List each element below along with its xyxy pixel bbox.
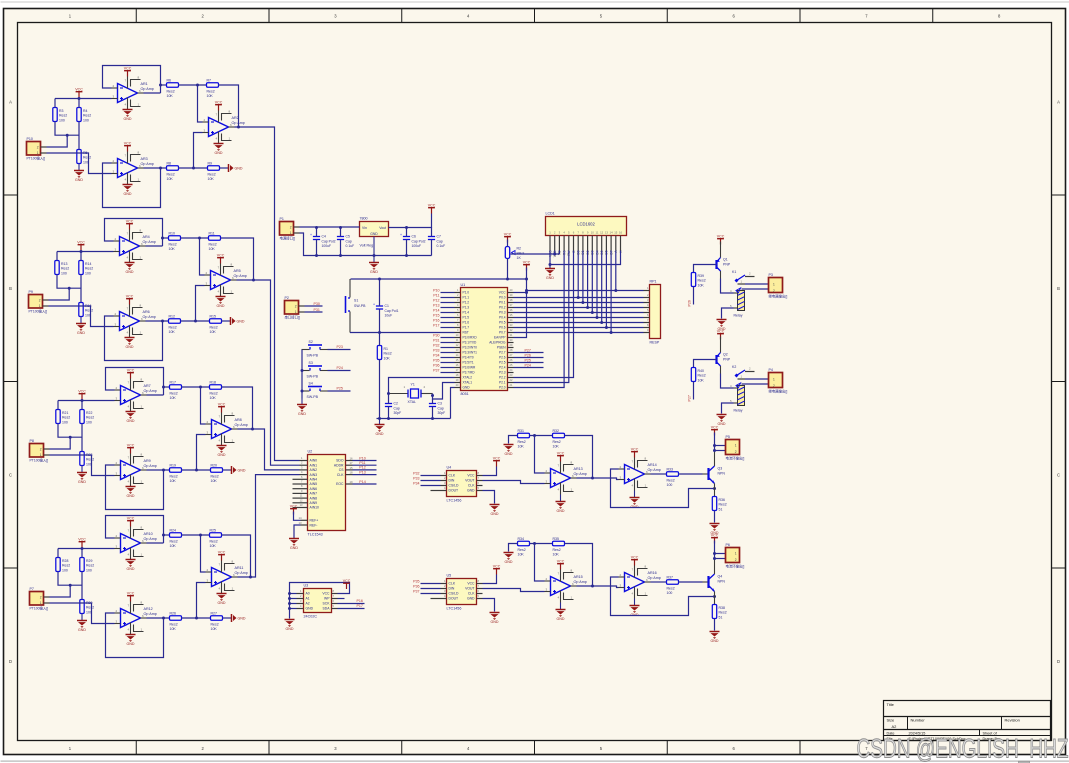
- power VCC: [77, 240, 85, 250]
- svg-text:电流环输出[]: 电流环输出[]: [726, 456, 745, 461]
- wire: [179, 84, 207, 86]
- svg-text:GND: GND: [237, 319, 245, 323]
- svg-text:GND: GND: [218, 453, 226, 457]
- svg-text:1: 1: [290, 231, 292, 235]
- svg-text:Op Amp: Op Amp: [144, 612, 157, 616]
- IC LCD1 LCD1602 display: [546, 212, 627, 258]
- svg-text:10K: 10K: [170, 627, 177, 631]
- svg-text:1: 1: [37, 151, 39, 155]
- wire: [353, 483, 377, 485]
- svg-text:B: B: [9, 286, 12, 291]
- svg-text:GND: GND: [127, 642, 135, 646]
- svg-text:1: 1: [40, 453, 42, 457]
- resistor R21: [56, 410, 70, 425]
- svg-text:Vin: Vin: [362, 226, 367, 230]
- junction: [68, 287, 71, 290]
- junction: [288, 607, 291, 610]
- power VCC: [493, 456, 501, 466]
- junction: [713, 557, 716, 560]
- svg-text:Res2: Res2: [210, 539, 218, 543]
- svg-text:AIN10: AIN10: [310, 506, 320, 510]
- svg-text:GND: GND: [491, 512, 499, 516]
- svg-text:PT100输入[]: PT100输入[]: [29, 309, 48, 314]
- svg-text:VCC: VCC: [467, 474, 475, 478]
- svg-text:Res2: Res2: [209, 242, 217, 246]
- wire: [223, 469, 232, 471]
- wire: [144, 167, 167, 169]
- junction: [315, 254, 318, 257]
- wire: [201, 535, 206, 572]
- switch S1 SW-PB: [346, 279, 367, 333]
- capacitor C6: [400, 233, 426, 248]
- wire: [714, 541, 716, 559]
- wire: [509, 544, 518, 552]
- svg-text:P30: P30: [314, 302, 320, 306]
- svg-text:2: 2: [40, 596, 42, 600]
- svg-text:100: 100: [62, 421, 68, 425]
- connector P4: [769, 368, 788, 394]
- wire: [679, 581, 703, 583]
- svg-text:10K: 10K: [170, 396, 177, 400]
- resistor R20: [211, 463, 223, 483]
- wire: [340, 240, 342, 256]
- junction: [405, 254, 408, 257]
- junction: [533, 542, 536, 545]
- switch S3 SW-PB: [302, 361, 328, 378]
- transistor Q1 PNP: [717, 242, 731, 279]
- junction: [591, 311, 594, 314]
- svg-text:R1: R1: [384, 347, 389, 351]
- svg-text:EOC: EOC: [336, 482, 344, 486]
- ground: [214, 144, 224, 156]
- wire: [714, 619, 716, 631]
- junction: [249, 576, 252, 579]
- wire: [300, 226, 360, 228]
- wire: [507, 240, 509, 247]
- svg-text:2: 2: [773, 289, 775, 293]
- net label P12: [359, 466, 365, 470]
- svg-text:VCC: VCC: [78, 389, 86, 393]
- svg-text:CLK: CLK: [337, 473, 344, 477]
- svg-text:GND: GND: [218, 601, 226, 605]
- svg-text:CSDN @ENGLISH_HHZ: CSDN @ENGLISH_HHZ: [857, 734, 1069, 763]
- resistor R18: [210, 380, 222, 400]
- wire: [742, 383, 769, 385]
- junction: [301, 390, 304, 393]
- svg-text:CLK: CLK: [449, 582, 456, 586]
- wire: [58, 548, 115, 550]
- power VCC: [428, 203, 436, 213]
- svg-text:P9: P9: [29, 290, 33, 294]
- wire: [353, 460, 377, 462]
- ground: [504, 445, 514, 457]
- junction: [198, 237, 201, 240]
- svg-text:GND: GND: [505, 560, 513, 564]
- svg-text:P25: P25: [525, 358, 531, 362]
- junction: [251, 428, 254, 431]
- capacitor C2: [385, 402, 401, 416]
- net label P13: [433, 304, 439, 308]
- wire: [483, 599, 495, 612]
- wire: [316, 240, 318, 256]
- svg-text:10K: 10K: [207, 94, 214, 98]
- svg-text:SW-PB: SW-PB: [307, 353, 319, 357]
- wire: [221, 238, 254, 280]
- svg-text:P27: P27: [525, 348, 531, 352]
- svg-text:P11: P11: [433, 294, 439, 298]
- svg-text:VCC: VCC: [711, 533, 719, 537]
- svg-text:10K: 10K: [167, 94, 174, 98]
- svg-text:R37: R37: [667, 575, 673, 579]
- svg-text:DIN: DIN: [449, 587, 455, 591]
- wire: [81, 424, 83, 452]
- junction: [713, 444, 716, 447]
- capacitor C1: [373, 303, 399, 318]
- svg-text:P1.7: P1.7: [463, 326, 470, 330]
- svg-text:VCC: VCC: [127, 443, 135, 447]
- svg-text:GND: GND: [306, 607, 314, 611]
- connector P1: [280, 217, 300, 241]
- svg-text:P2.1: P2.1: [499, 381, 506, 385]
- junction: [78, 97, 81, 100]
- svg-text:1: 1: [39, 304, 41, 308]
- ground: [217, 594, 227, 606]
- wire: [146, 245, 163, 247]
- net label P11: [359, 461, 365, 465]
- wire: [514, 302, 644, 304]
- wire: [388, 394, 390, 404]
- wire: [514, 297, 644, 299]
- wire: [238, 429, 300, 470]
- wire: [514, 251, 574, 378]
- svg-text:串口接口[]: 串口接口[]: [285, 315, 301, 320]
- svg-text:R12: R12: [169, 314, 175, 318]
- svg-text:Res2: Res2: [667, 478, 675, 482]
- svg-text:Q3: Q3: [718, 467, 723, 471]
- svg-text:CS: CS: [339, 468, 344, 472]
- resistor R9: [208, 161, 220, 181]
- svg-text:VCC: VCC: [717, 329, 725, 333]
- svg-text:AR1: AR1: [141, 82, 148, 86]
- resistor R35: [553, 537, 565, 557]
- ground: [556, 603, 566, 622]
- svg-text:A2: A2: [306, 602, 310, 606]
- svg-text:REF+: REF+: [310, 518, 319, 522]
- svg-text:Relay: Relay: [734, 314, 743, 318]
- wire: [103, 66, 161, 94]
- svg-text:C6: C6: [412, 235, 416, 239]
- power VCC: [493, 564, 501, 574]
- wire: [219, 85, 239, 127]
- wire: [338, 598, 345, 600]
- wire: [514, 251, 569, 383]
- svg-text:A2: A2: [892, 724, 898, 729]
- svg-text:R31: R31: [518, 429, 524, 433]
- wire: [50, 603, 115, 624]
- svg-text:P17: P17: [433, 324, 439, 328]
- net label P27: [525, 348, 531, 352]
- svg-text:10: 10: [591, 230, 595, 234]
- wire: [679, 473, 703, 475]
- power VCC: [557, 559, 565, 569]
- wire: [379, 360, 381, 419]
- svg-text:Q1: Q1: [723, 258, 728, 262]
- svg-text:R9: R9: [208, 161, 213, 165]
- svg-text:RST: RST: [463, 331, 469, 335]
- svg-text:13: 13: [605, 230, 609, 234]
- op-amp AR3: [112, 150, 154, 184]
- power VCC: [557, 451, 565, 461]
- svg-text:P7: P7: [30, 587, 34, 591]
- net label P30: [314, 302, 320, 306]
- wire: [722, 308, 734, 319]
- svg-text:Cap Pol2: Cap Pol2: [322, 239, 336, 243]
- wire: [432, 407, 434, 419]
- svg-text:LTC1456: LTC1456: [447, 607, 462, 611]
- svg-text:P3.6/WR: P3.6/WR: [463, 366, 476, 370]
- resistor R12: [169, 314, 181, 334]
- net label P10: [433, 289, 439, 293]
- svg-text:16: 16: [619, 230, 623, 234]
- wire: [509, 436, 518, 444]
- transistor Q3 NPN: [703, 451, 726, 497]
- svg-text:P2.6: P2.6: [499, 356, 506, 360]
- svg-text:Vout: Vout: [379, 226, 386, 230]
- junction: [159, 84, 162, 87]
- wire: [605, 251, 607, 328]
- wire: [421, 593, 441, 595]
- svg-text:Res2: Res2: [86, 606, 94, 610]
- svg-text:VOUT: VOUT: [465, 479, 474, 483]
- svg-text:Volt Reg: Volt Reg: [360, 244, 374, 248]
- svg-text:AIN8: AIN8: [310, 496, 318, 500]
- svg-text:DIN: DIN: [449, 479, 455, 483]
- ground: [74, 164, 84, 183]
- capacitor C5: [337, 235, 354, 249]
- svg-text:Revision: Revision: [1005, 718, 1020, 723]
- svg-text:GND: GND: [491, 620, 499, 624]
- wire: [353, 474, 377, 476]
- junction: [506, 278, 509, 281]
- wire: [379, 333, 381, 346]
- svg-text:P11: P11: [359, 461, 365, 465]
- svg-text:R7: R7: [207, 78, 212, 82]
- junction: [581, 301, 584, 304]
- svg-text:10K: 10K: [553, 553, 560, 557]
- svg-text:C5: C5: [346, 235, 350, 239]
- svg-text:P1.4: P1.4: [463, 311, 470, 315]
- svg-text:VCC: VCC: [127, 516, 135, 520]
- ground: [77, 614, 87, 633]
- ground: [545, 269, 555, 281]
- svg-text:+: +: [373, 303, 375, 307]
- svg-text:GND: GND: [557, 509, 565, 513]
- ground: [126, 635, 136, 647]
- junction: [600, 321, 603, 324]
- junction: [161, 237, 164, 240]
- svg-text:LTC1456: LTC1456: [447, 499, 462, 503]
- wire: [577, 251, 579, 298]
- watermark: [857, 734, 1069, 763]
- svg-text:AR6: AR6: [143, 310, 150, 314]
- svg-text:Res2: Res2: [167, 172, 175, 176]
- wire: [431, 240, 433, 256]
- svg-text:R33: R33: [667, 467, 673, 471]
- svg-text:Cap Pol2: Cap Pol2: [412, 239, 426, 243]
- wire: [360, 255, 432, 257]
- svg-text:Op Amp: Op Amp: [574, 580, 587, 584]
- ground: [216, 297, 226, 309]
- svg-text:P12: P12: [359, 466, 365, 470]
- op-amp AR15: [545, 568, 587, 602]
- wire: [651, 581, 667, 583]
- resistor R25: [210, 528, 222, 548]
- wire: [57, 275, 81, 289]
- junction: [69, 436, 72, 439]
- wire: [147, 617, 170, 619]
- ground: [77, 466, 87, 485]
- svg-text:+: +: [310, 233, 312, 237]
- wire: [514, 268, 527, 338]
- wire: [338, 608, 365, 610]
- power VCC: [124, 141, 132, 151]
- svg-text:GND: GND: [238, 468, 246, 472]
- wire: [514, 332, 644, 334]
- svg-text:VCC: VCC: [127, 368, 135, 372]
- net label P17: [433, 324, 439, 328]
- svg-text:VCC: VCC: [78, 537, 86, 541]
- power VCC: [127, 591, 135, 601]
- svg-text:SDA: SDA: [323, 607, 331, 611]
- junction: [549, 263, 552, 266]
- svg-text:GND: GND: [298, 412, 306, 416]
- svg-text:K1: K1: [732, 270, 736, 274]
- svg-text:AIN7: AIN7: [310, 492, 318, 496]
- svg-text:Number: Number: [911, 718, 926, 723]
- svg-text:2: 2: [735, 558, 737, 562]
- svg-text:GND: GND: [546, 276, 554, 280]
- junction: [192, 167, 195, 170]
- wire: [305, 305, 323, 307]
- svg-text:14: 14: [299, 516, 303, 520]
- svg-text:R13: R13: [61, 262, 67, 266]
- svg-text:0.1uF: 0.1uF: [346, 244, 355, 248]
- voltage regulator U6 7800: [360, 217, 389, 248]
- resistor R8: [167, 161, 179, 181]
- resistor R16: [79, 303, 93, 318]
- wire: [714, 511, 716, 523]
- wire: [105, 219, 163, 247]
- ground: [125, 338, 135, 350]
- svg-text:SCK: SCK: [323, 602, 331, 606]
- IC RP1 resistor pack RESP: [644, 280, 661, 345]
- svg-text:2: 2: [295, 305, 297, 309]
- wire: [106, 465, 164, 510]
- svg-text:2: 2: [40, 448, 42, 452]
- svg-text:P16: P16: [433, 319, 439, 323]
- wire: [406, 228, 408, 237]
- svg-text:100: 100: [86, 569, 92, 573]
- svg-text:Res2: Res2: [62, 416, 70, 420]
- junction: [614, 289, 617, 292]
- svg-text:P37: P37: [433, 369, 439, 373]
- capacitor C4: [310, 233, 336, 248]
- junction: [591, 477, 594, 480]
- svg-text:10K: 10K: [209, 247, 216, 251]
- svg-text:R29: R29: [86, 559, 92, 563]
- ground: [232, 614, 246, 622]
- svg-text:R4: R4: [83, 109, 88, 113]
- wire: [196, 286, 205, 322]
- svg-text:Res2: Res2: [61, 267, 69, 271]
- junction: [69, 584, 72, 587]
- svg-text:GND: GND: [124, 117, 132, 121]
- wire: [144, 92, 161, 94]
- wire: [147, 542, 164, 544]
- svg-text:U2: U2: [308, 450, 313, 454]
- junction: [387, 392, 390, 395]
- svg-text:GND: GND: [126, 270, 134, 274]
- svg-text:TLC1543: TLC1543: [308, 532, 323, 536]
- wire: [294, 525, 301, 539]
- wire: [451, 388, 455, 419]
- junction: [252, 279, 255, 282]
- svg-text:RPot: RPot: [517, 251, 525, 255]
- svg-text:R20: R20: [211, 463, 217, 467]
- svg-text:13: 13: [299, 521, 303, 525]
- junction: [525, 289, 528, 292]
- wire: [351, 278, 527, 280]
- svg-text:S4: S4: [309, 382, 313, 386]
- power VCC: [711, 425, 719, 435]
- wire: [565, 544, 593, 587]
- ground: [710, 632, 720, 644]
- resistor R22: [80, 410, 94, 425]
- svg-text:2: 2: [735, 450, 737, 454]
- wire: [223, 617, 232, 619]
- op-amp AR11: [206, 559, 248, 593]
- ground: [490, 505, 500, 517]
- svg-text:100: 100: [667, 483, 673, 487]
- capacitor C7: [428, 235, 445, 249]
- svg-text:S3: S3: [309, 361, 313, 365]
- wire: [56, 252, 58, 261]
- svg-text:GND: GND: [376, 432, 384, 436]
- svg-text:10K: 10K: [210, 330, 217, 334]
- svg-text:Res2: Res2: [667, 586, 675, 590]
- svg-text:P0.7: P0.7: [499, 331, 506, 335]
- svg-text:R14: R14: [85, 262, 91, 266]
- wire: [146, 320, 169, 322]
- svg-text:R8: R8: [167, 161, 172, 165]
- wire: [200, 238, 205, 275]
- wire: [441, 327, 455, 329]
- svg-text:Op Amp: Op Amp: [648, 468, 661, 472]
- net label P15: [433, 314, 439, 318]
- svg-text:Res2: Res2: [719, 503, 727, 507]
- svg-text:NPN: NPN: [718, 472, 726, 476]
- svg-text:Res2: Res2: [169, 325, 177, 329]
- svg-text:Cap: Cap: [394, 406, 400, 410]
- wire: [328, 349, 351, 351]
- svg-text:AIN2: AIN2: [310, 468, 318, 472]
- wire: [530, 543, 553, 545]
- wire: [328, 390, 351, 392]
- wire: [554, 251, 556, 255]
- ground: [126, 560, 136, 572]
- svg-text:S1: S1: [354, 299, 358, 303]
- svg-text:U4: U4: [447, 466, 452, 470]
